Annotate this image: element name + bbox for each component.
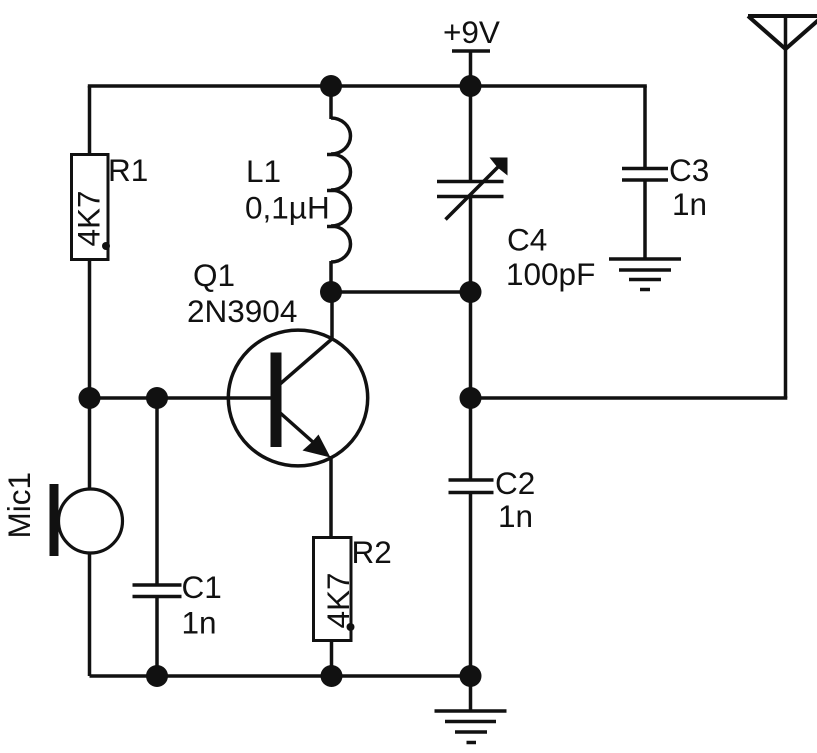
svg-text:1n: 1n [498, 498, 533, 534]
svg-text:R1: R1 [108, 152, 148, 188]
wire: left vertical lower (Mic1 bottom to bottom rail) [88, 553, 92, 676]
microphone Mic1 bar [50, 484, 59, 556]
svg-text:0,1µH: 0,1µH [245, 190, 330, 226]
wire: antenna vertical [784, 16, 788, 398]
inductor L1 coil [331, 118, 351, 262]
wire: base rail [90, 396, 273, 400]
variable capacitor C4 arrowhead [490, 158, 508, 176]
wire: +9V lead down through C4 [469, 51, 473, 182]
wire: L1 bottom lead [329, 261, 333, 292]
ground symbol below C3 [609, 259, 681, 290]
capacitor C3 plates [622, 169, 668, 181]
wire: C3 top lead [643, 86, 647, 169]
node: base rail / C1 junction [146, 387, 168, 409]
transistor Q1 collector diagonal [280, 338, 333, 384]
node: bottom rail / ground junction [460, 665, 482, 687]
resistor R2 body [314, 538, 352, 641]
transistor Q1 emitter arrowhead [303, 435, 331, 458]
variable capacitor C4 plates [437, 182, 504, 197]
wire: collector lead [330, 292, 334, 341]
svg-text:Q1: Q1 [193, 257, 235, 293]
wire: top rail [88, 84, 647, 88]
wire: L1 top lead [329, 86, 333, 119]
svg-text:C1: C1 [182, 569, 222, 605]
wire: left vertical upper (to R1 top) [88, 86, 92, 155]
wire: C2 bottom lead to ground [469, 492, 473, 711]
wire: emitter lead [329, 456, 333, 538]
wire: bottom rail [90, 674, 471, 678]
svg-text:L1: L1 [246, 153, 281, 189]
resistor R1 body [72, 155, 109, 260]
wire: collector rail (L1 bottom to C4 bottom) [331, 290, 471, 294]
node: L1 bottom / collector junction [320, 281, 342, 303]
wire: C1 upper lead [155, 398, 159, 585]
svg-text:4K7: 4K7 [320, 572, 356, 628]
svg-text:100pF: 100pF [506, 256, 595, 292]
node: C2 top / antenna rail junction [460, 387, 482, 409]
inductor L1 coil cusp hooks [327, 155, 336, 227]
wire: R2 bottom lead [330, 640, 334, 676]
power +9V terminal bar [452, 49, 490, 53]
transistor Q1 base bar [271, 353, 282, 448]
capacitor C2 plates [449, 480, 494, 493]
transistor Q1 emitter diagonal [278, 411, 314, 443]
svg-text:Mic1: Mic1 [1, 472, 37, 539]
capacitor C1 plates [133, 585, 182, 597]
svg-text:2N3904: 2N3904 [187, 293, 297, 329]
node: top rail / L1 junction [320, 75, 342, 97]
variable capacitor C4 arrow shaft [446, 166, 500, 220]
svg-text:C2: C2 [495, 465, 535, 501]
node: base rail left junction [79, 387, 101, 409]
microphone Mic1 circle [59, 489, 123, 553]
svg-text:C3: C3 [669, 152, 709, 188]
wire: C4 bottom lead [469, 196, 473, 292]
svg-text:C4: C4 [507, 222, 547, 258]
svg-text:4K7: 4K7 [71, 190, 107, 246]
antenna triangle [748, 16, 817, 49]
node: bottom rail / R2 junction [321, 665, 343, 687]
wire: C1 lower lead [155, 596, 159, 676]
node: bottom rail / C1 junction [146, 665, 168, 687]
ground symbol at bottom [435, 711, 507, 743]
wire: mid vertical (C4 bottom to C2 top) [469, 292, 473, 480]
node: top rail / +9V junction [460, 75, 482, 97]
transistor Q1 circle [228, 330, 367, 466]
wire: right rail to antenna [471, 396, 788, 400]
resistor R2 wiper dot [347, 623, 355, 631]
resistor R1 wiper dot [102, 242, 110, 250]
svg-text:R2: R2 [352, 534, 392, 570]
svg-text:+9V: +9V [443, 14, 500, 50]
wire: left vertical middle (R1 bottom to Mic1 top) [88, 259, 92, 490]
wire: C3 bottom lead to ground [643, 179, 647, 259]
svg-text:1n: 1n [672, 186, 707, 222]
svg-text:1n: 1n [182, 605, 217, 641]
node: C4 bottom junction [460, 281, 482, 303]
